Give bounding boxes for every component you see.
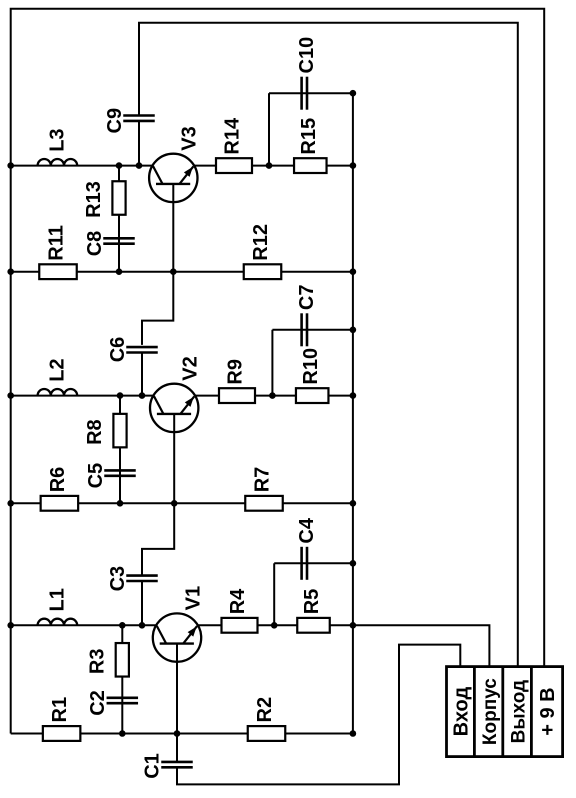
wire V1 base lead [176,644,178,734]
capacitor C10 [300,77,303,110]
junction dot V2 base on D-row [171,500,178,507]
svg-text:R15: R15 [298,118,320,155]
resistor R3 [116,643,129,677]
capacitor C6 [126,346,158,349]
svg-text:R3: R3 [86,649,108,675]
inductor L2 [38,389,78,396]
junction dots left rail rows C/D [7,392,14,399]
junction dots R8 chain [117,392,124,399]
connector block [447,667,563,757]
svg-text:R14: R14 [222,117,244,155]
capacitor C5 [104,469,136,472]
wire C-row (collector row of V2) [11,395,273,397]
svg-text:C3: C3 [107,566,129,592]
svg-text:Выход: Выход [508,680,529,743]
svg-text:R4: R4 [227,588,249,614]
svg-text:R5: R5 [301,589,323,615]
junction dot R7 at rail [350,500,357,507]
svg-text:C8: C8 [84,231,106,257]
svg-text:C2: C2 [87,690,109,716]
resistor R11 [39,264,77,279]
wire C1 to input terminal [177,645,460,785]
svg-text:C6: C6 [107,337,129,363]
wire C4 row [274,562,353,564]
svg-text:V3: V3 [179,126,201,150]
inductor L3 [38,159,78,166]
wire C1 upper lead [176,734,178,762]
svg-text:R13: R13 [83,181,105,218]
wire A-row (collector row of V3) [11,165,269,167]
svg-text:R9: R9 [225,359,247,385]
wire R8/C5 chain [119,396,121,504]
svg-text:L3: L3 [46,128,68,151]
transistor V3 [149,154,197,202]
resistor R4 [222,618,258,633]
resistor R12 [244,264,282,279]
junction dot C10 at rail [350,90,357,97]
wire D-row (base bias row of V2) [11,502,353,504]
wire V2 base lead [173,414,175,503]
capacitor C7 [300,313,303,346]
resistor R5 [297,618,330,633]
wire R3/C2 chain [121,625,123,733]
junction dots R3 chain [119,622,126,629]
connector divider 1 [473,667,476,757]
capacitor C4 [300,547,303,580]
capacitor C1 [161,761,193,764]
wire left rail [10,166,12,734]
wire C3 lower lead [141,581,143,625]
wire ground to Korpus terminal [353,625,490,666]
resistor R14 [216,158,252,173]
wire B-row (base bias row of V3) [11,271,353,273]
wire E-row (collector row of V1) [11,624,275,626]
resistor R10 [296,388,329,403]
wire branch up to C7 [271,330,273,396]
svg-text:+ 9 В: + 9 В [537,687,559,735]
svg-text:C4: C4 [296,517,318,543]
capacitor C9 [123,114,155,117]
wire top inner line (output to Vyhod) [139,23,518,667]
resistor R2 [248,726,286,741]
wire R13/C8 chain [118,166,120,272]
wire C3 jog [142,503,174,575]
junction dots left rail rows E/F [7,622,14,629]
junction dots left rail rows A/B [7,162,14,169]
junction dot C4 at rail [350,560,357,567]
resistor R7 [245,496,283,511]
svg-text:C7: C7 [296,285,318,311]
junction dot R15 at rail [350,162,357,169]
wire top outer supply line (+9 V rail) [11,9,545,667]
junction dot R2 at rail [350,730,357,737]
svg-text:V2: V2 [180,356,202,380]
wire C10 row [269,92,353,94]
junction dot C6 on C-row [139,392,146,399]
svg-text:V1: V1 [182,586,204,610]
svg-text:R6: R6 [47,467,69,493]
wire C9 branch [138,121,140,166]
wire C6 jog [142,272,173,345]
svg-text:C1: C1 [142,753,164,779]
svg-text:Корпус: Корпус [480,678,501,745]
junction dot C3 on E-row [139,622,146,629]
junction dot C7 at rail [350,327,357,334]
svg-text:C5: C5 [85,463,107,489]
junction dot C9 on A-row [136,162,143,169]
inductor L1 [38,619,78,626]
wire right common rail [352,93,354,733]
wire branch up to C10 [268,93,270,165]
svg-text:R11: R11 [46,225,68,261]
wire C6 lower lead [141,353,143,396]
junction dot R5 at rail [350,622,357,629]
svg-text:R7: R7 [252,467,274,493]
resistor R15 [294,158,327,173]
junction dot R10 at rail [350,392,357,399]
svg-text:R12: R12 [250,224,272,261]
node at R4/R5 [271,622,278,629]
transistor V1 [153,613,201,661]
svg-text:Вход: Вход [451,687,473,737]
capacitor C8 [103,237,135,240]
svg-text:C10: C10 [296,37,318,74]
capacitor C2 [107,696,139,699]
junction dot V3 base on B-row [170,268,177,275]
junction dot V1 base on F-row [174,730,181,737]
resistor R13 [112,181,125,215]
wire branch up to C4 [273,563,275,625]
capacitor C3 [126,574,158,577]
svg-text:R10: R10 [300,348,322,385]
svg-text:R8: R8 [84,419,106,445]
svg-text:L2: L2 [46,358,68,381]
svg-text:L1: L1 [46,588,68,611]
svg-text:R1: R1 [49,697,71,723]
connector divider 2 [501,667,504,757]
resistor R1 [43,726,81,741]
resistor R8 [113,414,126,448]
node at R14/R15 [266,162,273,169]
wire F-row (base bias row of V1) [11,733,353,735]
transistor V2 [150,384,198,432]
svg-text:R2: R2 [254,697,276,723]
junction dots R13 chain [116,162,123,169]
resistor R9 [219,388,255,403]
wire C7 row [272,329,353,331]
junction dot R12 at rail [350,268,357,275]
wire V3 base lead [172,184,174,272]
connector divider 3 [530,667,533,757]
svg-text:C9: C9 [104,108,126,134]
node at R9/R10 [269,392,276,399]
resistor R6 [41,496,79,511]
